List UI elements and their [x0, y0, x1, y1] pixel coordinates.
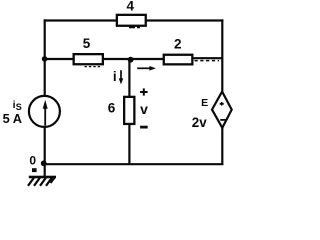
wire top horizontal right segment	[146, 19, 223, 21]
polarity plus of v across R6	[140, 88, 148, 95]
node 0 junction dot (bottom)	[41, 160, 47, 166]
svg-text:0: 0	[29, 154, 36, 168]
svg-text:5 A: 5 A	[3, 111, 22, 126]
ground symbol	[28, 176, 56, 186]
label iS	[13, 99, 22, 112]
wire right vertical lower	[221, 127, 223, 165]
svg-text:E: E	[201, 97, 208, 109]
wire middle horizontal R5 to R2	[103, 58, 164, 60]
value label 6	[108, 101, 116, 116]
wire middle horizontal node A to R5	[45, 58, 74, 60]
svg-text:5: 5	[83, 36, 91, 51]
wire middle vertical to R6 top	[128, 59, 130, 97]
wire middle horizontal R2 to right vertical	[193, 58, 224, 60]
resistor 5 (middle left branch)	[74, 54, 103, 66]
value label 5	[83, 36, 91, 51]
svg-text:2v: 2v	[192, 115, 207, 130]
resistor 6 (vertical middle branch)	[124, 97, 134, 124]
node A junction dot (left)	[42, 56, 48, 62]
svg-text:6: 6	[108, 101, 116, 116]
wire bottom horizontal rail	[43, 163, 223, 165]
wire left vertical lower	[44, 127, 46, 176]
polarity minus of v across R6	[140, 126, 148, 129]
svg-text:v: v	[140, 101, 148, 117]
label E	[201, 97, 208, 109]
label 2v	[192, 115, 207, 130]
current arrow into R2 (rightward)	[137, 66, 156, 71]
resistor 4 (top branch)	[117, 15, 146, 28]
wire top horizontal left segment	[44, 19, 117, 21]
node B junction dot (middle)	[128, 57, 134, 63]
stray ink mark below node 0	[32, 168, 37, 172]
resistor 2 (middle right branch)	[164, 55, 193, 65]
dependent source E (diamond)	[212, 92, 232, 128]
svg-text:4: 4	[126, 0, 134, 13]
value label 2	[174, 36, 182, 51]
current arrow i (downward)	[119, 70, 124, 84]
svg-text:i: i	[113, 69, 117, 84]
current source iS circle	[29, 96, 60, 127]
value label 4	[126, 0, 134, 13]
wire left vertical upper	[44, 19, 46, 96]
wire R6 bottom to bottom rail	[128, 124, 130, 165]
label v across R6	[140, 101, 148, 117]
label 5 A	[3, 111, 22, 126]
node 0 label	[29, 154, 36, 168]
wire right vertical upper	[221, 19, 223, 93]
label i	[113, 69, 117, 84]
svg-text:2: 2	[174, 36, 182, 51]
